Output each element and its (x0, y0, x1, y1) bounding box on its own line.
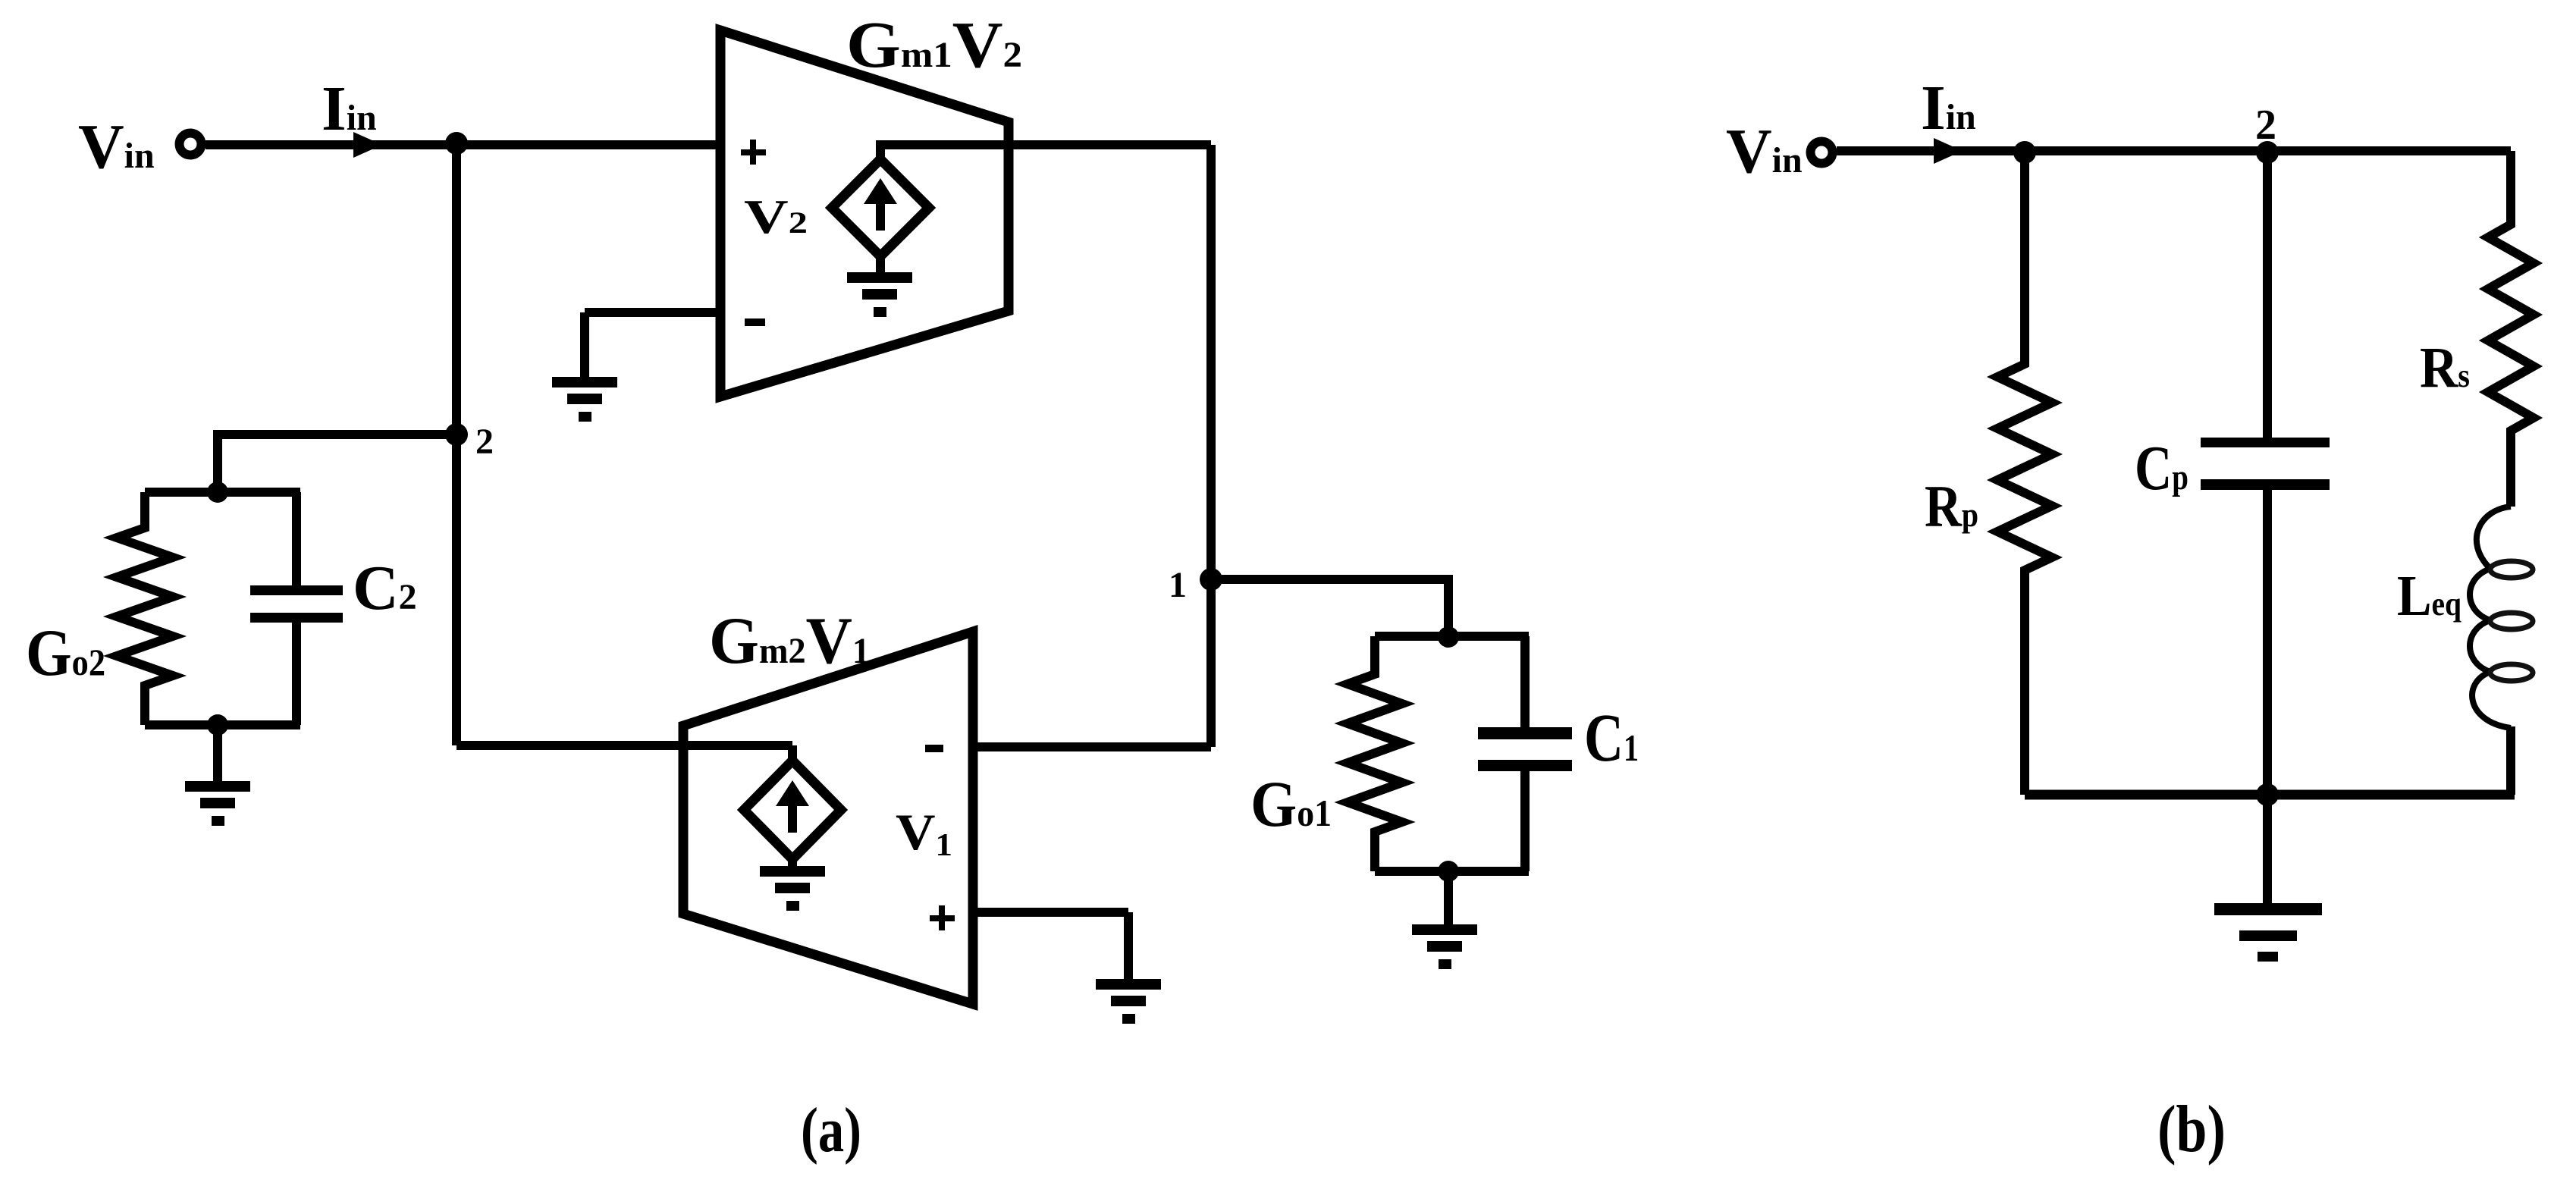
Go2/C2 top bar (145, 488, 300, 497)
ground main (b) (2214, 903, 2322, 915)
dependent source diamond Gm2 (744, 761, 841, 859)
minus sign Gm2 output (925, 745, 943, 752)
plus sign Gm2 input (930, 915, 955, 921)
wire Gm2 minus output to node 1 line (973, 742, 1211, 751)
wire Vin to Rp junction (b) (1837, 146, 2511, 155)
plus sign Gm1 (741, 149, 766, 155)
arrow Iin (a) (353, 132, 382, 158)
Go2/C2 bottom bar (145, 720, 300, 729)
junction dot Go2/C2 bottom (207, 714, 228, 736)
junction dot Go1/C1 bottom (1438, 861, 1459, 882)
wire to ground of Go2/C2 (213, 725, 222, 781)
ground at Gm1 minus input (552, 377, 617, 387)
junction dot Go1/C1 top (1438, 626, 1459, 648)
svg-text:2: 2 (2255, 102, 2276, 149)
wire node2 to Go2/C2 (218, 435, 457, 492)
dependent source diamond Gm1 (832, 159, 929, 256)
minus sign Gm1 (745, 318, 765, 326)
bottom bar (b) (2025, 790, 2515, 800)
wire node 1 to Go1/C1 (1211, 579, 1448, 634)
ground at Gm2 plus input (1096, 979, 1161, 990)
main vertical wire node2 line (452, 145, 461, 745)
capacitor C1 (1520, 636, 1530, 871)
junction dot input (a) (445, 132, 468, 155)
Go1/C1 bottom bar (1375, 867, 1529, 876)
svg-text:2: 2 (475, 422, 494, 462)
junction dot Go2/C2 top (207, 482, 228, 503)
arrow shaft in Gm1 source (876, 199, 885, 231)
transconductor Gm1 body (720, 30, 1009, 397)
capacitor Cp plates (2201, 438, 2330, 447)
node 2 dot (b) (2256, 141, 2279, 164)
svg-text:(a): (a) (801, 1095, 861, 1166)
svg-text:(b): (b) (2157, 1093, 2226, 1166)
terminal Vin (a) (180, 133, 202, 155)
resistor Go1 (1348, 636, 1402, 871)
resistor Rp (1997, 151, 2052, 795)
transconductor Gm2 body (683, 632, 973, 1004)
capacitor C1 plates (1478, 727, 1572, 739)
arrow head in Gm2 source (776, 780, 809, 806)
ground inside Gm2 (760, 866, 825, 877)
wire diamond Gm1 to internal ground (876, 256, 885, 273)
junction dot bottom (b) (2256, 783, 2279, 806)
ground below Go1/C1 (1412, 924, 1477, 935)
ground below Go2/C2 (185, 781, 250, 792)
capacitor Cp (2263, 151, 2272, 795)
wire node2 line to Gm2 input (457, 745, 792, 761)
wire to ground of Go1/C1 (1444, 871, 1453, 924)
inductor Leq loop 3 (2490, 664, 2533, 681)
wire Vin to input junction (206, 140, 720, 149)
wire Leq to bottom bar (2506, 726, 2515, 795)
wire Gm1 minus input to ground (585, 312, 720, 377)
Go1/C1 top bar (1375, 632, 1529, 641)
arrow shaft in Gm2 source (788, 801, 797, 833)
wire top right corner down to Rs (2506, 151, 2515, 224)
resistor Rs (2488, 155, 2534, 507)
node 1 dot (1200, 568, 1222, 591)
node 2 dot (a) (445, 423, 468, 446)
wire bottom junction to ground (b) (2263, 795, 2272, 903)
wire diamond Gm1 to output (876, 145, 1211, 159)
wire Gm1 output down to node 1 (1206, 145, 1216, 747)
terminal Vin (b) (1811, 142, 1833, 164)
arrow head in Gm1 source (864, 178, 897, 204)
resistor Go2 (117, 492, 173, 725)
junction dot Rp (b) (2013, 141, 2036, 164)
svg-text:1: 1 (1169, 565, 1187, 605)
inductor Leq loop 2 (2490, 613, 2533, 629)
capacitor C2 (292, 492, 301, 725)
inductor Leq loop 1 (2490, 561, 2533, 578)
inductor Leq arcs (2470, 507, 2511, 728)
arrow Iin (b) (1934, 138, 1963, 164)
ground inside Gm1 (847, 272, 912, 283)
wire Gm2 plus input to ground (973, 912, 1128, 979)
capacitor C2 plates (250, 585, 343, 595)
wire diamond Gm2 to internal ground (788, 859, 797, 866)
